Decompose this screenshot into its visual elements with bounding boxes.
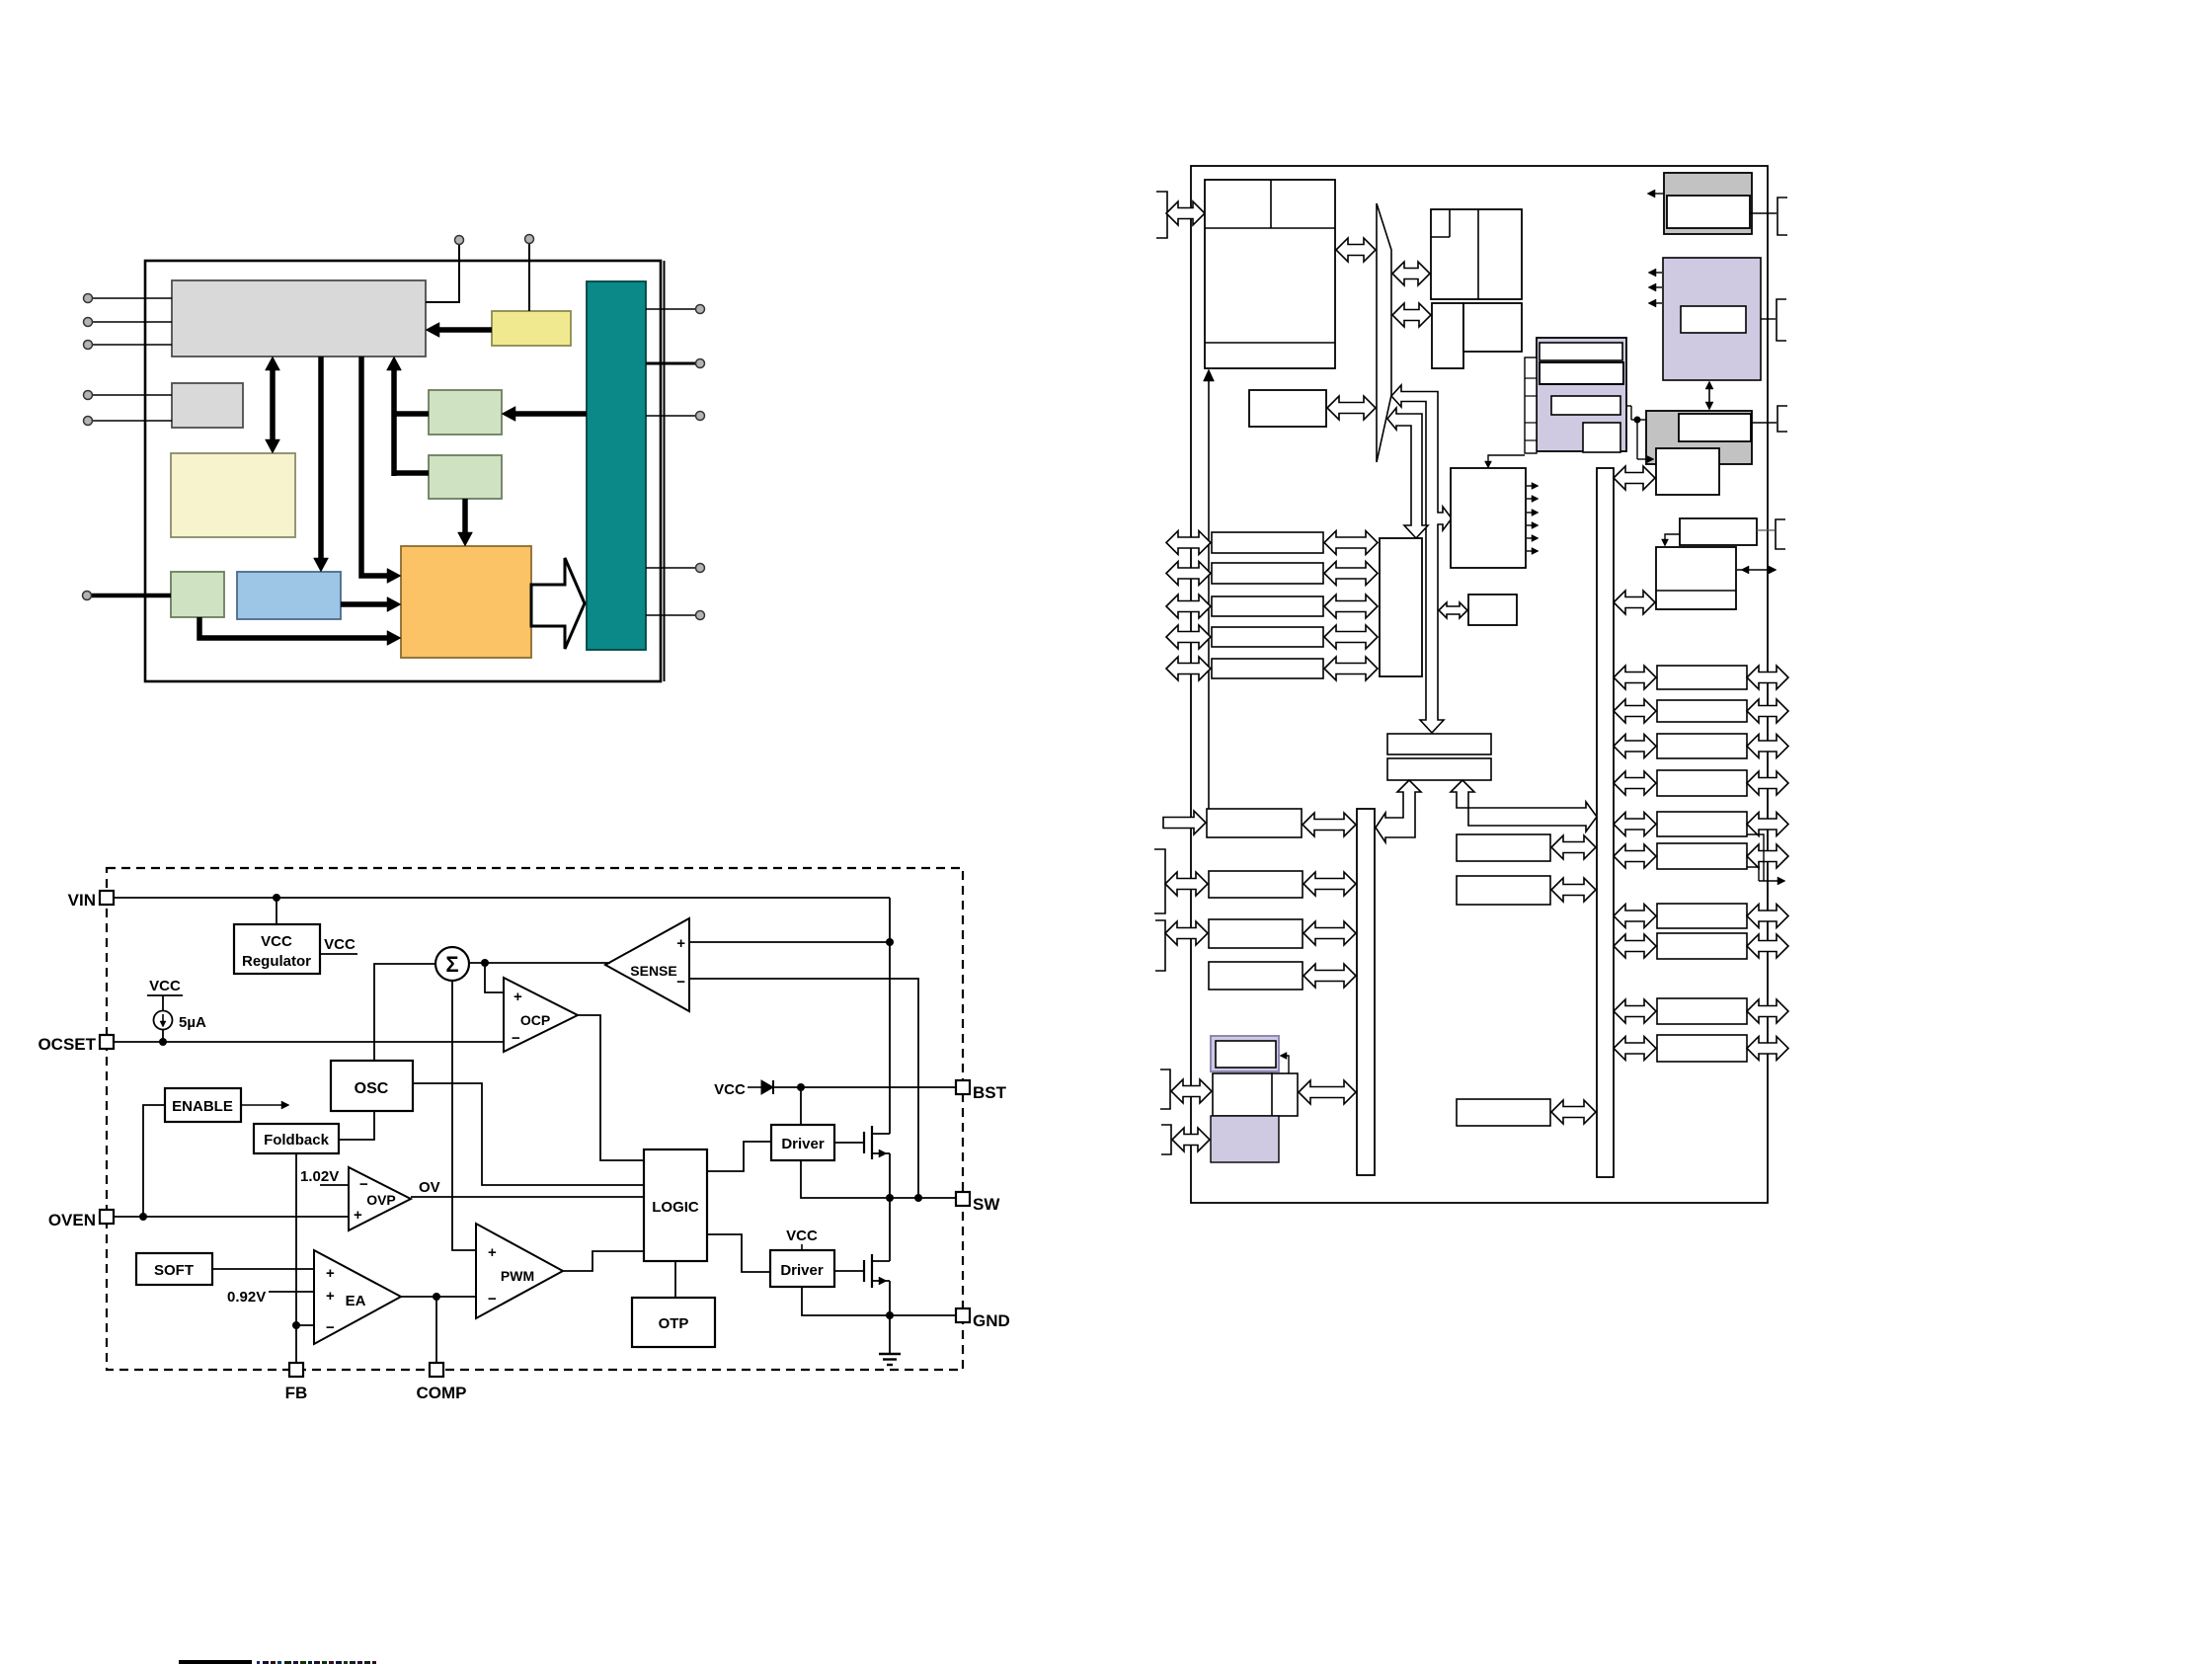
L fat arrow strip to peripheral bus xyxy=(1451,780,1597,832)
net label VCC (current source) xyxy=(147,978,183,1011)
net label VCC (regulator out) xyxy=(320,936,357,954)
arrow capture out 4 xyxy=(1527,522,1539,529)
block LOGIC xyxy=(644,1149,707,1261)
block capture module xyxy=(1451,468,1526,568)
bus arrow comparator xyxy=(1551,1100,1596,1124)
wire PWM to LOGIC xyxy=(563,1251,644,1271)
wire OCP to LOGIC xyxy=(578,1015,644,1160)
svg-text:+: + xyxy=(676,935,685,952)
wire SW xyxy=(886,1194,956,1202)
block io port 1 xyxy=(1212,532,1323,553)
block OSC xyxy=(331,1061,413,1111)
bus arrow reg 5 right xyxy=(1747,813,1788,836)
block peripheral reg 7 xyxy=(1657,904,1747,928)
wire sigma to OSC xyxy=(374,964,435,1061)
cal white box 3 xyxy=(1551,396,1620,415)
bus arrow reg 7 right xyxy=(1747,905,1788,928)
block dma controller xyxy=(1207,809,1302,837)
arrow gray updown memory xyxy=(266,357,280,453)
block timer bank (tall) xyxy=(1380,538,1422,676)
bus arrow adc left xyxy=(1171,1079,1212,1103)
bus arrow reg 7 left xyxy=(1614,905,1656,928)
arrows osc outputs xyxy=(1648,269,1662,307)
arrow gray down right to orange xyxy=(361,357,401,584)
wire driver2 to GND xyxy=(802,1287,890,1315)
bus arrow io port 1 left xyxy=(1166,531,1211,555)
svg-text:+: + xyxy=(354,1207,362,1224)
bus arrow reg 1 right xyxy=(1747,666,1788,689)
svg-text:VCC: VCC xyxy=(714,1081,746,1098)
block comparator block xyxy=(1457,1099,1550,1126)
wire SOFT to EA xyxy=(212,1268,314,1270)
wire sigma out to SENSE xyxy=(469,959,610,967)
net label VCC (bst diode) xyxy=(714,1081,761,1098)
system outer border xyxy=(1191,166,1768,1203)
diode D1 xyxy=(761,1080,773,1094)
svg-text:Foldback: Foldback xyxy=(264,1132,330,1149)
cal white box 2 xyxy=(1540,362,1623,384)
block usart xyxy=(1209,871,1303,898)
arrow adc feedback xyxy=(1280,1053,1289,1074)
wire OV out xyxy=(411,1179,644,1197)
block bus bridge strip 2 xyxy=(1387,758,1491,780)
pin OVEN xyxy=(48,1210,114,1229)
caption bar xyxy=(179,1660,252,1664)
wire Q2 source to GND xyxy=(889,1281,891,1315)
wire sigma node to OCP plus xyxy=(485,963,504,992)
cal white box 1 xyxy=(1540,343,1622,360)
wire driver2 gate xyxy=(834,1270,864,1272)
block peripheral reg 3 xyxy=(1657,734,1747,758)
block tx (green 2) xyxy=(429,455,502,499)
wire LOGIC to driver2 xyxy=(707,1234,770,1272)
block timer a xyxy=(1457,834,1550,861)
pin stub right 5 xyxy=(646,611,705,620)
ground symbol xyxy=(879,1315,901,1365)
block peripheral reg 9 xyxy=(1657,998,1747,1024)
block processing (blue) xyxy=(237,572,341,619)
svg-text:Driver: Driver xyxy=(780,1262,824,1279)
block flash memory xyxy=(1431,209,1522,299)
block watchdog (small) xyxy=(1468,594,1517,625)
svg-text:OTP: OTP xyxy=(659,1315,689,1332)
arrow capture out 3 xyxy=(1527,510,1539,516)
peripheral bus bar (right) xyxy=(1597,468,1614,1177)
svg-text:−: − xyxy=(326,1319,335,1336)
bracket aref xyxy=(1161,1125,1171,1154)
wire Q1 source to SW xyxy=(889,1153,891,1198)
svg-text:VIN: VIN xyxy=(68,891,96,910)
svg-text:+: + xyxy=(513,989,522,1005)
svg-text:GND: GND xyxy=(973,1311,1010,1330)
net label VCC (driver2) xyxy=(786,1228,818,1250)
block bus bridge strip 1 xyxy=(1387,734,1491,754)
block OTP xyxy=(632,1298,715,1347)
block spi xyxy=(1209,919,1303,948)
svg-text:SOFT: SOFT xyxy=(154,1262,194,1279)
block peripheral reg 2 xyxy=(1657,700,1747,722)
L fat arrow bus to converter (outer) xyxy=(1391,385,1452,733)
wire regs to ext pin xyxy=(1747,834,1785,885)
wire SENSE plus xyxy=(689,938,894,946)
main data bus (slanted) xyxy=(1377,203,1391,462)
bus arrow reg 10 left xyxy=(1614,1037,1656,1061)
bus arrow aref left xyxy=(1172,1128,1210,1151)
wire BST xyxy=(773,1083,956,1125)
pin BST xyxy=(956,1080,1007,1102)
block CPU core xyxy=(1205,180,1335,368)
bus arrow io port 5 right xyxy=(1324,657,1378,680)
fat arrow bus2 to clock div xyxy=(1614,466,1655,490)
fat arrow channel to watchdog xyxy=(1439,602,1467,618)
block peripheral reg 5 xyxy=(1657,812,1747,836)
outer case box of IC block diagram xyxy=(145,261,665,681)
svg-text:PWM: PWM xyxy=(501,1268,534,1284)
svg-text:COMP: COMP xyxy=(417,1384,467,1402)
wire VIN rail xyxy=(114,894,890,924)
bus arrow reg 2 right xyxy=(1747,699,1788,723)
bus arrow reg 9 left xyxy=(1614,999,1656,1023)
svg-text:Driver: Driver xyxy=(781,1136,825,1152)
block SOFT xyxy=(136,1253,212,1285)
block pll box xyxy=(1680,518,1757,545)
bus arrow reg 2 left xyxy=(1614,699,1656,723)
svg-text:OVP: OVP xyxy=(366,1192,396,1208)
block VCC Regulator xyxy=(234,924,320,974)
pin stub left 3 xyxy=(84,341,173,350)
svg-text:VCC: VCC xyxy=(261,933,292,950)
arrow ENABLE out xyxy=(241,1101,289,1109)
wire LOGIC to OTP xyxy=(674,1261,676,1298)
pin stub left 1 xyxy=(84,294,173,303)
svg-text:FB: FB xyxy=(285,1384,308,1402)
pin OCSET xyxy=(38,1035,114,1054)
block boot rom (gray) xyxy=(1664,173,1752,234)
comparator PWM xyxy=(476,1224,563,1318)
svg-text:1.02V: 1.02V xyxy=(300,1168,339,1185)
wire SENSE minus xyxy=(689,979,918,1198)
block peripheral reg 8 xyxy=(1657,933,1747,959)
arrow blue to orange xyxy=(341,597,401,612)
summer sigma xyxy=(435,947,469,981)
fat arrow bus2 to modulator xyxy=(1614,591,1655,614)
bracket clk out xyxy=(1777,406,1787,432)
pin stub right 4 xyxy=(646,564,705,573)
svg-text:Σ: Σ xyxy=(445,952,458,977)
amplifier SENSE xyxy=(605,918,689,1011)
bus arrow io port 3 right xyxy=(1324,594,1378,618)
pin stub left 5 xyxy=(84,417,173,426)
bus arrow spi left xyxy=(1165,921,1208,945)
bus arrow to ram box xyxy=(1392,303,1431,327)
svg-text:OVEN: OVEN xyxy=(48,1211,96,1229)
bus arrow reg 6 left xyxy=(1614,844,1656,868)
block memory (pale yellow) xyxy=(171,453,295,537)
bus arrow reg 5 left xyxy=(1614,813,1656,836)
arrow teal to green1 xyxy=(502,407,587,422)
arrow boot rom out xyxy=(1647,190,1664,198)
block io port 2 xyxy=(1212,563,1323,584)
svg-text:EA: EA xyxy=(346,1293,366,1309)
bus arrow to flash box xyxy=(1392,262,1430,285)
svg-text:−: − xyxy=(512,1030,520,1047)
comparator OVP xyxy=(349,1167,411,1230)
arrow modulator ext xyxy=(1737,566,1777,574)
svg-text:ENABLE: ENABLE xyxy=(172,1098,233,1115)
pin stub left 2 xyxy=(84,318,173,327)
pin stub left 6 (thick) xyxy=(83,592,172,600)
arrow gray down to blue xyxy=(314,357,329,572)
block io port 3 xyxy=(1212,596,1323,616)
wire EA out / COMP xyxy=(401,1293,476,1363)
big outline arrow orange to teal xyxy=(531,558,585,649)
bus arrow spi right xyxy=(1303,921,1356,945)
wire LOGIC to driver1 xyxy=(707,1142,771,1171)
bus arrow timer a xyxy=(1551,835,1596,859)
cal white box 4 xyxy=(1583,423,1620,452)
bus arrow usart left xyxy=(1165,872,1208,896)
bus arrow cpu to main bus xyxy=(1336,238,1376,262)
block io port 4 xyxy=(1212,627,1323,647)
svg-text:OCP: OCP xyxy=(520,1012,550,1028)
bus arrow usart right xyxy=(1303,872,1356,896)
block pin interface (teal) xyxy=(587,281,646,650)
svg-text:+: + xyxy=(326,1288,335,1305)
bracket port A (top left) xyxy=(1156,192,1167,238)
svg-text:SW: SW xyxy=(973,1195,1000,1214)
wire purple strip to clkgen xyxy=(1620,406,1654,463)
wire OSC to LOGIC xyxy=(413,1083,644,1185)
block io port 5 xyxy=(1212,659,1323,678)
svg-text:OV: OV xyxy=(419,1179,440,1196)
wire FB net xyxy=(292,1153,314,1363)
svg-text:VCC: VCC xyxy=(149,978,181,994)
bus arrow i2c right xyxy=(1303,964,1356,988)
label 0.92V xyxy=(227,1289,314,1306)
bus arrow io port 4 right xyxy=(1324,625,1378,649)
bus arrow reg 3 left xyxy=(1614,735,1656,758)
bracket pll xyxy=(1776,519,1785,549)
block ENABLE xyxy=(165,1088,241,1122)
bus arrow adc right xyxy=(1299,1080,1356,1104)
bus arrow portA to cpu xyxy=(1166,201,1205,225)
arrow yellow to gray xyxy=(426,323,492,338)
bus arrow reg 4 left xyxy=(1614,771,1656,795)
wire SW to Q2 drain xyxy=(889,1198,891,1261)
svg-text:VCC: VCC xyxy=(324,936,355,953)
wire OVEN to ENABLE xyxy=(143,1105,165,1217)
block peripheral reg 4 xyxy=(1657,770,1747,796)
svg-text:Regulator: Regulator xyxy=(242,953,311,970)
fat arrow dma to aux bus xyxy=(1303,813,1356,836)
bus arrow io port 1 right xyxy=(1324,531,1378,555)
pin stub right 1 xyxy=(646,305,705,314)
wire driver1 to SW xyxy=(801,1160,890,1198)
block input (green 3) xyxy=(171,572,224,617)
bus arrow io port 3 left xyxy=(1166,594,1211,618)
caption text xyxy=(257,1661,376,1664)
block clock gen (gray) xyxy=(1646,411,1752,464)
svg-text:BST: BST xyxy=(973,1083,1007,1102)
bracket xtal xyxy=(1777,198,1787,235)
bus arrow reg 9 right xyxy=(1747,999,1788,1023)
L fat arrow strip to aux bus xyxy=(1376,780,1421,842)
comparator OCP xyxy=(504,978,578,1052)
cal connector strip xyxy=(1525,357,1537,453)
svg-text:SENSE: SENSE xyxy=(630,963,676,979)
wire rom to xtal xyxy=(1750,212,1777,214)
wire OSC to Foldback xyxy=(339,1111,374,1140)
block Driver 1 xyxy=(771,1125,834,1160)
svg-text:LOGIC: LOGIC xyxy=(652,1199,699,1216)
L fat arrow bus to peripheral block (inner) xyxy=(1387,408,1428,538)
block modulator xyxy=(1656,547,1736,609)
aux bus bar (left) xyxy=(1357,809,1375,1175)
error amp EA xyxy=(314,1250,401,1344)
wire VIN to Q1 drain xyxy=(889,898,891,1134)
block timer b xyxy=(1457,876,1550,905)
arrow green3 to orange xyxy=(199,617,401,646)
bracket spi xyxy=(1155,920,1165,971)
block osc module (purple) xyxy=(1663,258,1761,380)
arrow capture out 2 xyxy=(1527,496,1539,503)
wire pll bracket xyxy=(1757,529,1775,531)
block peripheral reg 10 xyxy=(1657,1035,1747,1062)
svg-text:0.92V: 0.92V xyxy=(227,1289,266,1306)
transistor Q1 (high side) xyxy=(864,1126,890,1159)
block config (small gray) xyxy=(172,383,243,428)
arrow capture out 6 xyxy=(1527,548,1539,555)
block reference (yellow) xyxy=(492,311,571,346)
block adc core xyxy=(1213,1072,1298,1116)
wire OVEN xyxy=(114,1213,349,1221)
bus arrow reg 8 left xyxy=(1614,934,1656,958)
transistor Q2 (low side) xyxy=(864,1254,890,1288)
block calibration (purple) xyxy=(1537,338,1626,451)
wire osc to pins xyxy=(1761,318,1776,320)
pin stub left 4 xyxy=(84,391,173,400)
svg-text:−: − xyxy=(488,1291,497,1307)
svg-text:+: + xyxy=(488,1244,497,1261)
block control-logic (gray) xyxy=(172,280,426,357)
svg-text:5µA: 5µA xyxy=(179,1014,206,1031)
IC boundary (dashed) xyxy=(107,868,963,1370)
interrupt line up to cpu xyxy=(1204,369,1215,809)
pin stub top 1 xyxy=(426,236,464,303)
pin VIN xyxy=(68,891,114,910)
svg-text:−: − xyxy=(676,974,685,990)
arrow capture out 5 xyxy=(1527,535,1539,542)
bus arrow reg 10 right xyxy=(1747,1037,1788,1061)
bracket usart xyxy=(1154,849,1165,913)
pin SW xyxy=(956,1192,1000,1214)
block output driver (orange) xyxy=(401,546,531,658)
bus arrow io port 4 left xyxy=(1166,625,1211,649)
bus arrow io port 5 left xyxy=(1166,657,1211,680)
block RAM xyxy=(1432,303,1522,368)
wire strip feed to capture xyxy=(1485,455,1526,468)
bus arrow reg 3 right xyxy=(1747,735,1788,758)
bus arrow reg 6 right xyxy=(1747,844,1788,868)
block Driver 2 xyxy=(770,1250,834,1287)
label 1.02V xyxy=(300,1168,349,1185)
wire clkgen to bracket xyxy=(1751,422,1777,424)
block Foldback xyxy=(254,1124,339,1153)
block i2c xyxy=(1209,962,1303,990)
bus arrow io port 2 left xyxy=(1166,562,1211,586)
current source 5uA xyxy=(154,1011,206,1032)
bus arrow io port 2 right xyxy=(1324,562,1378,586)
bus arrow clock to bus xyxy=(1327,396,1376,420)
block peripheral reg 6 xyxy=(1657,843,1747,869)
bus arrow timer b xyxy=(1551,878,1596,902)
pin stub top 2 xyxy=(525,235,534,312)
svg-text:−: − xyxy=(359,1176,368,1193)
block adc top (purple frame) xyxy=(1211,1036,1279,1071)
pin stub right 3 xyxy=(646,412,705,421)
wire driver1 gate xyxy=(834,1142,864,1144)
block adc ref (purple) xyxy=(1211,1116,1279,1162)
arrow green2 down to orange xyxy=(458,499,473,546)
bus arrow reg 1 left xyxy=(1614,666,1656,689)
fat arrow into dma xyxy=(1163,811,1206,834)
svg-text:OCSET: OCSET xyxy=(38,1035,96,1054)
bracket adc in xyxy=(1160,1070,1170,1109)
bus arrow reg 4 right xyxy=(1747,771,1788,795)
arrow capture out 1 xyxy=(1527,483,1539,490)
bracket osc pins xyxy=(1777,299,1786,341)
svg-text:+: + xyxy=(326,1265,335,1282)
block peripheral reg 1 xyxy=(1657,666,1747,689)
wire GND xyxy=(886,1311,956,1319)
pin GND xyxy=(956,1308,1010,1330)
svg-text:VCC: VCC xyxy=(786,1228,818,1244)
block clock module xyxy=(1249,390,1326,427)
wire OCSET xyxy=(114,1030,504,1046)
wire pll down xyxy=(1662,534,1681,546)
svg-text:OSC: OSC xyxy=(355,1080,389,1097)
wire sigma down to PWM plus xyxy=(452,981,476,1250)
pin FB xyxy=(285,1363,308,1402)
block clock div xyxy=(1656,448,1719,495)
arrow green1/green2 up into gray xyxy=(387,357,430,476)
arrow osc to clkgen xyxy=(1705,381,1713,410)
pin COMP xyxy=(417,1363,467,1402)
block rx (green 1) xyxy=(429,390,502,435)
bus arrow reg 8 right xyxy=(1747,934,1788,958)
pin stub right 2 xyxy=(646,359,705,368)
